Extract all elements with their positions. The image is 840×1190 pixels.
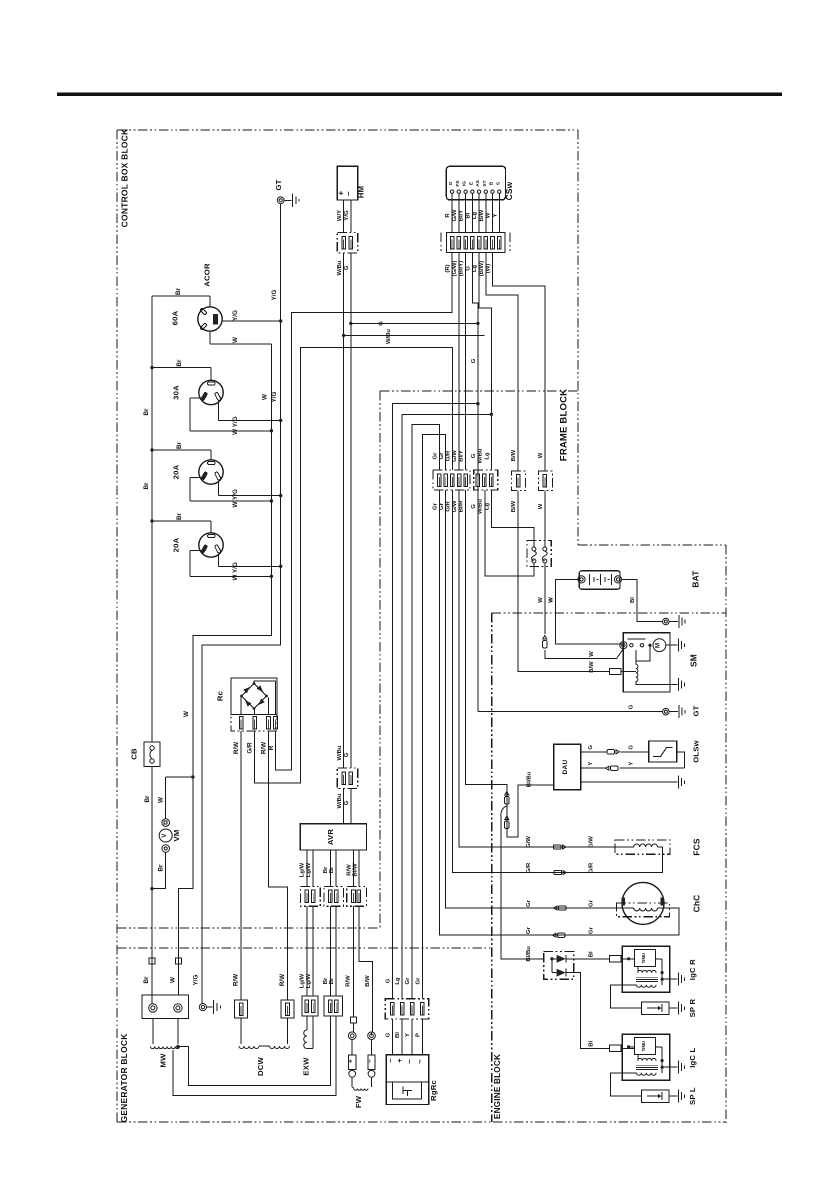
svg-text:Br: Br	[144, 795, 151, 803]
svg-text:B/W: B/W	[511, 500, 517, 512]
svg-text:(R): (R)	[445, 264, 451, 272]
svg-text:W: W	[538, 597, 544, 603]
svg-text:G: G	[471, 453, 477, 458]
svg-text:FRAME BLOCK: FRAME BLOCK	[559, 389, 570, 461]
svg-text:Gr: Gr	[439, 452, 445, 460]
svg-text:R/W: R/W	[279, 974, 286, 986]
svg-text:R: R	[445, 213, 451, 218]
svg-text:B/W: B/W	[479, 209, 485, 221]
svg-text:Br: Br	[175, 287, 182, 295]
svg-text:W/Bu: W/Bu	[337, 793, 343, 808]
svg-text:Y/G: Y/G	[271, 391, 278, 402]
svg-text:Y: Y	[492, 213, 498, 217]
svg-text:IgC L: IgC L	[688, 1047, 697, 1067]
svg-text:G/R: G/R	[445, 450, 451, 461]
svg-text:B: B	[489, 181, 495, 185]
svg-text:Y/G: Y/G	[232, 310, 239, 321]
svg-text:HM: HM	[356, 186, 365, 198]
svg-text:Rc: Rc	[216, 690, 225, 701]
svg-text:Br: Br	[143, 482, 150, 490]
svg-text:W: W	[549, 597, 555, 603]
svg-text:~: ~	[405, 1059, 414, 1064]
svg-text:IG: IG	[462, 181, 468, 186]
svg-text:G/W: G/W	[452, 450, 458, 462]
svg-text:Br: Br	[329, 866, 335, 873]
svg-text:~: ~	[415, 1059, 424, 1064]
svg-text:W: W	[538, 503, 544, 509]
svg-text:CB: CB	[130, 748, 139, 760]
svg-text:30A: 30A	[172, 385, 181, 400]
svg-text:W Y/G: W Y/G	[232, 562, 239, 581]
svg-text:G: G	[588, 745, 594, 750]
svg-text:–: –	[344, 191, 353, 196]
svg-text:G: G	[385, 978, 391, 983]
svg-text:Lg: Lg	[472, 212, 478, 220]
svg-text:Br: Br	[323, 866, 329, 873]
svg-text:G: G	[628, 704, 634, 709]
svg-text:–: –	[367, 1059, 374, 1063]
svg-text:Br: Br	[176, 359, 183, 367]
svg-text:Y: Y	[405, 1033, 411, 1037]
svg-text:FS: FS	[455, 180, 461, 187]
svg-text:Lg/W: Lg/W	[306, 973, 312, 988]
svg-text:Bl: Bl	[465, 212, 471, 218]
svg-text:Lg: Lg	[485, 452, 491, 460]
svg-text:BAT: BAT	[691, 570, 701, 588]
svg-text:W: W	[183, 711, 190, 717]
svg-text:Br: Br	[176, 512, 183, 520]
svg-text:CSw: CSw	[504, 181, 514, 200]
svg-text:G/W: G/W	[526, 836, 532, 848]
svg-text:G: G	[344, 265, 350, 270]
svg-text:RgRc: RgRc	[429, 1080, 438, 1101]
svg-text:ACOR: ACOR	[203, 263, 212, 287]
svg-text:FW: FW	[354, 1095, 363, 1108]
svg-text:W: W	[538, 452, 544, 458]
svg-text:Lg: Lg	[472, 265, 478, 273]
svg-text:IgC R: IgC R	[688, 959, 697, 980]
svg-text:TrMU: TrMU	[641, 1041, 646, 1051]
svg-text:G: G	[471, 358, 477, 363]
svg-text:Gr: Gr	[588, 899, 594, 907]
svg-text:Y/G: Y/G	[344, 210, 350, 221]
svg-text:DAU: DAU	[562, 760, 569, 775]
svg-text:R/W: R/W	[233, 742, 240, 754]
svg-text:W: W	[262, 394, 269, 400]
svg-text:60A: 60A	[171, 310, 180, 325]
svg-text:(B/W): (B/W)	[479, 261, 485, 276]
svg-text:VM: VM	[172, 830, 181, 842]
svg-text:–: –	[385, 1058, 394, 1063]
svg-text:Bl/Bu: Bl/Bu	[527, 771, 533, 787]
svg-text:G: G	[471, 504, 477, 509]
svg-text:W/Bu: W/Bu	[477, 499, 483, 514]
svg-text:Bl/Y: Bl/Y	[459, 450, 465, 462]
svg-text:W/Bu: W/Bu	[337, 745, 343, 760]
svg-text:W/Bu: W/Bu	[337, 260, 343, 275]
svg-text:Gr: Gr	[588, 926, 594, 934]
svg-text:DCW: DCW	[256, 1056, 265, 1076]
svg-text:GENERATOR BLOCK: GENERATOR BLOCK	[119, 1033, 129, 1123]
svg-text:G/W: G/W	[588, 836, 594, 848]
svg-text:W Y/G: W Y/G	[232, 416, 239, 435]
svg-text:W/Bu: W/Bu	[477, 448, 483, 463]
svg-text:+: +	[347, 1059, 354, 1063]
svg-text:Br: Br	[143, 408, 150, 416]
svg-text:G: G	[385, 1032, 391, 1037]
svg-text:G: G	[344, 800, 350, 805]
svg-text:W/Bu: W/Bu	[386, 329, 392, 344]
svg-text:W Y/G: W Y/G	[232, 489, 239, 508]
svg-text:W: W	[170, 977, 177, 983]
svg-text:G: G	[448, 181, 454, 185]
svg-text:Lg: Lg	[395, 977, 401, 985]
svg-text:Gr: Gr	[405, 977, 411, 985]
svg-text:W/Y: W/Y	[337, 210, 343, 221]
svg-text:Y: Y	[588, 762, 594, 766]
svg-text:W: W	[157, 797, 164, 803]
svg-text:(W): (W)	[486, 264, 492, 274]
svg-text:FCS: FCS	[691, 838, 701, 856]
svg-text:W: W	[486, 212, 492, 218]
svg-text:ChC: ChC	[691, 895, 701, 913]
svg-text:MW: MW	[159, 1053, 168, 1068]
svg-text:B/W: B/W	[511, 449, 517, 461]
svg-text:TrMU: TrMU	[641, 953, 646, 963]
svg-text:W: W	[589, 651, 595, 657]
svg-text:Bl: Bl	[630, 597, 636, 603]
svg-text:B/W: B/W	[365, 975, 371, 987]
svg-text:Br: Br	[143, 976, 150, 984]
svg-text:Br: Br	[176, 441, 183, 449]
svg-text:Gr: Gr	[526, 926, 532, 934]
svg-text:Bl/R: Bl/R	[459, 500, 465, 513]
svg-text:R/W: R/W	[346, 864, 352, 876]
svg-text:G: G	[344, 752, 350, 757]
svg-text:Br: Br	[157, 864, 164, 872]
svg-text:Gr: Gr	[433, 452, 439, 460]
svg-text:Bl/Bu: Bl/Bu	[526, 946, 532, 962]
svg-text:G/R: G/R	[588, 862, 594, 873]
svg-text:Y/G: Y/G	[271, 289, 278, 300]
svg-text:B/W: B/W	[589, 661, 595, 673]
svg-text:AS: AS	[475, 179, 481, 186]
svg-text:SP R: SP R	[688, 999, 697, 1018]
svg-text:Br: Br	[323, 977, 329, 984]
svg-text:CONTROL BOX BLOCK: CONTROL BOX BLOCK	[120, 128, 130, 227]
svg-text:G/W: G/W	[452, 209, 458, 221]
svg-text:R/W: R/W	[346, 975, 352, 987]
svg-text:G: G	[379, 321, 385, 326]
svg-text:(Bl/Y): (Bl/Y)	[459, 261, 465, 276]
svg-text:Lg/W: Lg/W	[306, 862, 312, 877]
svg-text:V: V	[162, 834, 168, 838]
svg-text:Bl/Y: Bl/Y	[459, 210, 465, 222]
svg-text:Bl: Bl	[395, 1032, 401, 1038]
svg-text:GT: GT	[274, 179, 283, 190]
svg-text:SM: SM	[689, 654, 699, 667]
svg-text:G/R: G/R	[247, 742, 254, 754]
svg-text:Gr: Gr	[526, 899, 532, 907]
svg-text:Lg/W: Lg/W	[299, 862, 305, 877]
svg-text:P: P	[415, 1033, 421, 1037]
svg-text:G/R: G/R	[526, 862, 532, 873]
svg-text:Gr: Gr	[415, 977, 421, 985]
svg-text:G: G	[465, 266, 471, 271]
svg-text:R/W: R/W	[233, 974, 240, 986]
svg-text:+: +	[395, 1058, 404, 1063]
svg-text:OLSw: OLSw	[691, 740, 700, 763]
svg-text:G: G	[628, 745, 634, 750]
svg-text:Y: Y	[628, 762, 634, 766]
svg-text:G/W: G/W	[452, 500, 458, 512]
svg-text:R/W: R/W	[261, 742, 268, 754]
svg-text:ENGINE BLOCK: ENGINE BLOCK	[493, 1054, 502, 1119]
svg-text:Gr: Gr	[433, 502, 439, 510]
svg-text:Bl/W: Bl/W	[353, 863, 359, 877]
svg-text:GT: GT	[691, 705, 700, 716]
svg-text:SP L: SP L	[688, 1087, 697, 1105]
svg-text:Lg/W: Lg/W	[299, 973, 305, 988]
svg-text:20A: 20A	[172, 464, 181, 479]
svg-text:G/R: G/R	[445, 501, 451, 512]
svg-text:EXW: EXW	[302, 1057, 311, 1076]
svg-text:20A: 20A	[172, 537, 181, 552]
svg-text:Bl: Bl	[588, 1040, 594, 1046]
svg-text:(G/W): (G/W)	[452, 261, 458, 277]
svg-text:Br: Br	[329, 977, 335, 984]
svg-text:ST: ST	[482, 180, 488, 186]
svg-text:W: W	[232, 337, 239, 343]
svg-text:AVR: AVR	[326, 829, 335, 846]
svg-text:Bl: Bl	[588, 951, 594, 957]
svg-text:M: M	[656, 643, 662, 648]
svg-text:Y/G: Y/G	[193, 974, 200, 985]
